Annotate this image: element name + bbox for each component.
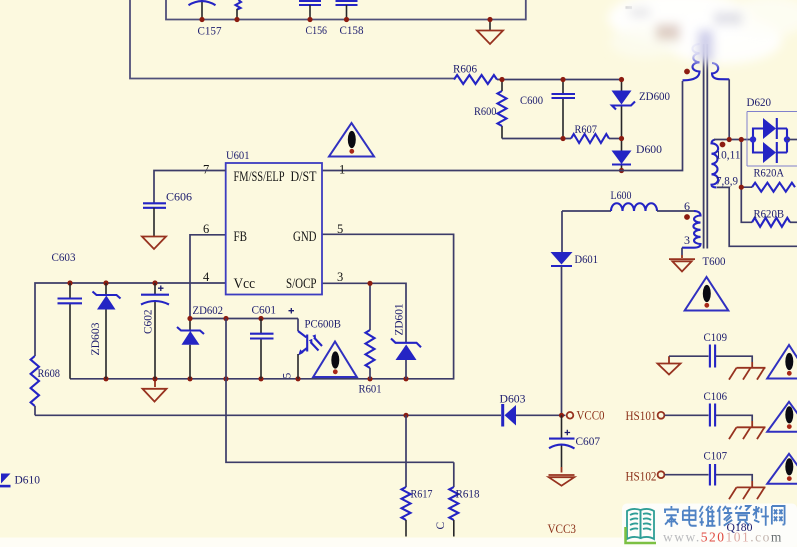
svg-text:R607: R607 <box>575 124 598 136</box>
svg-text:L600: L600 <box>611 190 632 202</box>
diode D601 <box>561 211 563 252</box>
wire outer box left edge and main rail y79 <box>130 0 454 79</box>
blurred watermark ghost <box>608 0 797 64</box>
wire 7-8-9 lead to offpage <box>717 187 797 246</box>
svg-text:PC600B: PC600B <box>305 319 342 331</box>
zener ZD602 <box>189 319 191 379</box>
svg-text:R617: R617 <box>411 489 433 501</box>
diode D603 <box>501 404 504 427</box>
diode D600 <box>621 139 623 171</box>
transformer T600 primary winding <box>683 44 700 80</box>
resistor R618 <box>453 462 455 487</box>
svg-text:C606: C606 <box>166 192 192 204</box>
svg-text:ZD601: ZD601 <box>394 303 406 335</box>
capacitor C606 <box>143 203 166 208</box>
HS102 terminal circle <box>658 471 665 478</box>
svg-text:FM/SS/ELP: FM/SS/ELP <box>234 169 285 185</box>
dots FB rail <box>187 316 192 321</box>
svg-text:C: C <box>435 522 447 530</box>
capacitor C106 <box>710 404 715 427</box>
svg-text:1: 1 <box>339 163 345 177</box>
line-filter component box edge <box>166 0 526 20</box>
warning triangle C106 row <box>767 402 797 432</box>
warning triangle C109 row <box>767 345 797 379</box>
wire GND pin5 rail <box>70 234 454 378</box>
HS101 terminal circle <box>658 412 665 419</box>
svg-text:T600: T600 <box>703 256 726 268</box>
svg-text:D610: D610 <box>15 475 41 487</box>
svg-text:R608: R608 <box>38 368 61 380</box>
VCC0 terminal circle <box>567 412 574 419</box>
svg-text:Q180: Q180 <box>727 522 753 534</box>
svg-text:C603: C603 <box>52 252 76 264</box>
svg-text:6: 6 <box>203 222 209 236</box>
svg-text:3: 3 <box>337 270 343 284</box>
resistor R617 <box>405 415 407 487</box>
svg-text:D603: D603 <box>500 394 526 406</box>
svg-text:R601: R601 <box>359 384 382 396</box>
ground at line filter <box>489 20 491 31</box>
wire pin3 to ground <box>681 248 683 255</box>
warning triangle below T600 <box>685 277 729 311</box>
wire FB rail <box>190 318 298 320</box>
capacitor C601 <box>260 319 262 379</box>
svg-text:5: 5 <box>282 373 294 379</box>
svg-text:C106: C106 <box>704 391 728 403</box>
svg-text:C607: C607 <box>576 436 601 448</box>
wire x226 column <box>226 319 454 463</box>
svg-text:D620: D620 <box>747 97 772 109</box>
wire main rail right of R606 <box>497 79 622 81</box>
svg-text:D/ST: D/ST <box>291 169 317 185</box>
dual diode D620 bottom diode <box>753 140 763 153</box>
dot VCC0 <box>559 413 564 418</box>
svg-text:C158: C158 <box>340 25 364 37</box>
wire L600 to pin6 <box>657 210 695 212</box>
svg-text:R620B: R620B <box>754 209 785 221</box>
svg-text:HS102: HS102 <box>626 469 657 484</box>
wire VCC0 line <box>35 414 501 416</box>
wire L600 left <box>562 210 611 212</box>
svg-text:C109: C109 <box>704 332 728 344</box>
diode D610 fragment <box>1 474 11 484</box>
wire pin7 <box>154 171 226 204</box>
svg-text:C156: C156 <box>306 25 328 37</box>
dual diode D620 top diode <box>753 129 763 140</box>
winding 6-3 polarity dot <box>684 214 690 220</box>
transformer top-right winding <box>712 63 729 79</box>
ground at C607 <box>561 467 563 473</box>
svg-text:ZD602: ZD602 <box>193 305 224 317</box>
capacitor C158 <box>336 1 358 20</box>
transformer T600 core <box>704 44 708 249</box>
capacitor C109 <box>710 345 715 368</box>
svg-text:HS101: HS101 <box>626 408 657 423</box>
svg-text:4: 4 <box>203 270 210 284</box>
wire FB pin6 <box>190 235 226 319</box>
svg-text:D601: D601 <box>575 254 599 266</box>
ground T600 <box>681 255 683 258</box>
svg-text:6: 6 <box>684 199 690 213</box>
inductor L600 <box>611 203 657 211</box>
svg-text:S/OCP: S/OCP <box>286 276 317 292</box>
IC U601 box <box>226 163 322 295</box>
svg-text:Vcc: Vcc <box>234 276 256 292</box>
svg-text:R606: R606 <box>453 64 477 76</box>
svg-text:R600: R600 <box>474 106 497 118</box>
dot pin3 R601 <box>367 281 372 286</box>
svg-text:R620A: R620A <box>754 168 785 180</box>
watermark book icon <box>627 509 654 539</box>
ground under C602 row <box>154 379 156 387</box>
dot R617 tap <box>403 413 408 418</box>
svg-text:3: 3 <box>684 233 690 247</box>
ground left of C109 <box>668 356 670 363</box>
wire D/ST pin1 to transformer primary <box>322 81 683 171</box>
dots at 10-11 node <box>727 137 732 142</box>
transformer winding 10-11 <box>712 140 719 188</box>
capacitor C600 <box>562 80 564 139</box>
resistor R608 <box>31 356 39 406</box>
winding 10-11 polarity dot <box>720 142 726 148</box>
svg-text:7,8,9: 7,8,9 <box>716 174 738 188</box>
svg-text:C157: C157 <box>198 26 222 38</box>
resistor R620A <box>752 183 795 192</box>
svg-text:C601: C601 <box>252 305 277 317</box>
capacitor C156 <box>299 1 321 20</box>
C601 plus mark <box>289 308 295 314</box>
svg-text:U601: U601 <box>226 150 250 162</box>
dots on gnd rail <box>103 376 108 381</box>
capacitor C107 <box>710 464 715 486</box>
wire node row y138 <box>502 138 571 140</box>
watermark chinese text jia-dian-wei-xiu-zi-liao-wang <box>664 506 679 527</box>
resistor R606 <box>454 75 497 84</box>
svg-text:7: 7 <box>203 163 209 177</box>
wire C107 row <box>665 475 753 481</box>
wire top-right winding to 10-11 node <box>728 79 730 139</box>
svg-text:VCC3: VCC3 <box>548 521 577 536</box>
wire Vcc pin4 rail and R608 column <box>35 283 226 356</box>
ground at C606 <box>142 237 166 250</box>
C602 plus sign <box>158 286 164 292</box>
chassis ground C106 <box>751 421 753 427</box>
svg-text:GND: GND <box>293 229 317 245</box>
svg-text:10,11: 10,11 <box>716 148 741 162</box>
junction dots on filter box <box>199 17 204 22</box>
resistor R607 <box>571 134 609 143</box>
svg-text:R618: R618 <box>456 489 480 501</box>
svg-text:www.520101.com: www.520101.com <box>663 530 783 545</box>
chassis ground C107 <box>751 481 753 487</box>
dots on Vcc rail <box>67 280 72 285</box>
capacitor C603 <box>69 283 71 379</box>
capacitor C157 <box>189 0 216 20</box>
svg-text:ZD603: ZD603 <box>90 322 102 355</box>
svg-text:5: 5 <box>337 222 343 236</box>
zener ZD601 <box>391 339 421 348</box>
chassis ground C109 <box>751 362 753 368</box>
svg-text:FB: FB <box>234 229 248 245</box>
optocoupler PC600B <box>297 319 299 332</box>
warning triangle near PC600B <box>313 342 357 378</box>
resistor R601 <box>369 283 371 330</box>
transformer winding 6-3 <box>682 211 701 248</box>
capacitor C602 electrolytic <box>154 283 156 379</box>
svg-text:VCC0: VCC0 <box>577 408 605 423</box>
wire C109 row <box>669 356 752 362</box>
wire 10-11 branch down to R620A/R620B <box>741 140 752 223</box>
svg-text:C107: C107 <box>704 451 728 463</box>
zener ZD600 <box>621 80 623 139</box>
no-connect dash above ZD600 <box>626 6 633 9</box>
spark gap <box>236 0 242 10</box>
svg-text:C602: C602 <box>143 309 155 334</box>
C607 plus sign <box>565 430 571 436</box>
resistor R600 <box>501 80 503 139</box>
resistor R620B <box>752 218 790 227</box>
svg-text:ZD600: ZD600 <box>639 91 670 103</box>
warning triangle above U601 <box>329 123 374 157</box>
dual diode D620 part box <box>747 112 797 167</box>
capacitor C607 electrolytic <box>561 415 563 467</box>
svg-text:C600: C600 <box>520 95 543 107</box>
D620 pin dots <box>750 136 756 142</box>
zener ZD603 <box>105 283 107 379</box>
primary polarity dot <box>684 69 690 75</box>
wire S/OCP pin3 <box>322 283 406 343</box>
warning triangle C107 row <box>767 454 797 484</box>
wire C106 row <box>665 415 753 421</box>
svg-text:D600: D600 <box>636 144 662 156</box>
wire 10-11 lead <box>714 139 753 141</box>
dots on rail y79 and ZD600 column <box>499 77 504 82</box>
watermark band <box>0 538 797 547</box>
